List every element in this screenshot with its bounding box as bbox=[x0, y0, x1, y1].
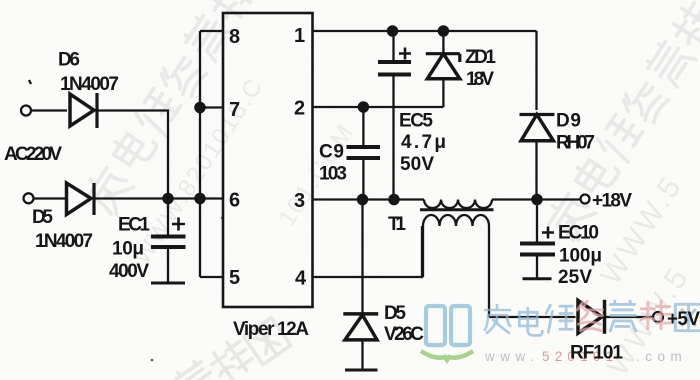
svg-text:3: 3 bbox=[294, 190, 305, 212]
svg-text:4: 4 bbox=[295, 268, 307, 290]
node junction C9/pin3 bbox=[358, 195, 367, 204]
capacitor EC1 bbox=[167, 199, 169, 236]
terminal +5V bbox=[653, 312, 663, 322]
svg-text:D5: D5 bbox=[384, 303, 406, 324]
node junction pin7 bbox=[195, 103, 204, 112]
wire +5V bbox=[489, 316, 576, 318]
svg-text:50V: 50V bbox=[400, 154, 434, 175]
zener bottom lead corner to pin2 handled above bbox=[442, 106, 444, 108]
diode D9 vertical bbox=[535, 31, 537, 110]
svg-text:8: 8 bbox=[229, 26, 240, 48]
diode RF101 bbox=[578, 300, 602, 333]
svg-text:103: 103 bbox=[319, 164, 347, 185]
gray diagonal watermark band A bbox=[81, 0, 257, 216]
gray diagonal watermark band G bbox=[173, 318, 290, 380]
svg-text:.com: .com bbox=[636, 349, 687, 364]
svg-text:RF101: RF101 bbox=[570, 343, 623, 364]
wire pin1 bbox=[313, 30, 537, 32]
svg-text:D6: D6 bbox=[58, 50, 80, 71]
wire pin3 bbox=[313, 198, 425, 200]
wire pin4 bbox=[313, 226, 423, 277]
watermark logo text bbox=[485, 301, 700, 335]
svg-text:1N4007: 1N4007 bbox=[35, 231, 93, 252]
capacitor C9 bbox=[362, 107, 364, 146]
wire left rail bbox=[199, 31, 201, 277]
svg-text:5: 5 bbox=[229, 267, 240, 289]
svg-text:C9: C9 bbox=[319, 142, 344, 163]
svg-text:Viper 12A: Viper 12A bbox=[233, 319, 309, 340]
speck bbox=[151, 359, 154, 362]
zener ZD1 bbox=[442, 31, 444, 55]
svg-text:EC1: EC1 bbox=[118, 215, 150, 236]
wire bbox=[96, 111, 168, 199]
wire bbox=[94, 197, 223, 199]
zener D5 V26C bbox=[343, 312, 378, 316]
svg-text:1N4007: 1N4007 bbox=[60, 74, 119, 95]
zener D5 V26C lead bbox=[361, 200, 363, 314]
svg-text:4.7μ: 4.7μ bbox=[401, 132, 446, 153]
wire pin8 stub bbox=[200, 30, 223, 32]
wire secondary left lead bbox=[422, 226, 424, 277]
svg-text:25V: 25V bbox=[558, 267, 592, 288]
svg-text:2: 2 bbox=[294, 98, 305, 120]
svg-text:RH07: RH07 bbox=[556, 133, 595, 154]
svg-text:+18V: +18V bbox=[592, 191, 632, 212]
node junction EC5/pin3 bbox=[389, 195, 398, 204]
node junction pin6 bbox=[195, 194, 204, 203]
svg-text:400V: 400V bbox=[109, 261, 149, 282]
stray mark bbox=[29, 80, 31, 84]
svg-text:6: 6 bbox=[229, 190, 240, 212]
node junction +18V bbox=[532, 195, 541, 204]
capacitor EC5 bbox=[392, 31, 394, 61]
svg-text:T1: T1 bbox=[388, 214, 406, 235]
svg-text:AC220V: AC220V bbox=[4, 144, 62, 165]
node junction C9/pin2 bbox=[359, 102, 368, 111]
wire bbox=[32, 109, 68, 111]
svg-text:D9: D9 bbox=[556, 111, 581, 132]
capacitor EC10 bbox=[536, 200, 538, 243]
terminal input top bbox=[21, 106, 31, 116]
wire secondary right lead bbox=[488, 226, 490, 317]
wire pin2 bbox=[313, 106, 444, 108]
diode D6 bbox=[70, 94, 94, 126]
svg-text:100μ: 100μ bbox=[559, 246, 602, 267]
svg-text:10μ: 10μ bbox=[112, 239, 144, 260]
speck bbox=[221, 217, 223, 219]
svg-text:ZD1: ZD1 bbox=[465, 47, 496, 68]
svg-text:EC10: EC10 bbox=[558, 223, 599, 244]
svg-text:www.: www. bbox=[484, 349, 539, 364]
transformer core bbox=[420, 208, 494, 211]
wire bbox=[604, 316, 653, 318]
terminal input bottom bbox=[24, 193, 34, 203]
terminal +18V bbox=[581, 195, 590, 204]
node junction D6 bbox=[163, 194, 172, 203]
svg-text:1: 1 bbox=[294, 25, 305, 47]
svg-text:D5: D5 bbox=[32, 207, 53, 228]
watermark logo book bbox=[421, 306, 473, 360]
diode D5 bbox=[67, 183, 92, 215]
wire bbox=[34, 197, 66, 199]
wire pin3 to +18V bbox=[492, 198, 580, 200]
wire pin5 stub bbox=[200, 276, 223, 278]
node junction ZD1/pin1 bbox=[439, 26, 448, 35]
svg-text:7: 7 bbox=[229, 99, 240, 121]
node junction EC5/pin1 bbox=[388, 26, 397, 35]
gray diagonal watermark band D bbox=[543, 0, 700, 242]
svg-text:+5V: +5V bbox=[667, 309, 700, 330]
svg-text:18V: 18V bbox=[466, 69, 494, 90]
wire pin7 stub bbox=[200, 106, 223, 108]
transformer T1 primary bbox=[424, 200, 492, 209]
svg-text:V26C: V26C bbox=[384, 324, 424, 345]
op-amp U1 Viper12A box bbox=[223, 13, 313, 307]
svg-text:EC5: EC5 bbox=[399, 111, 433, 132]
transformer T1 secondary bbox=[423, 215, 489, 226]
